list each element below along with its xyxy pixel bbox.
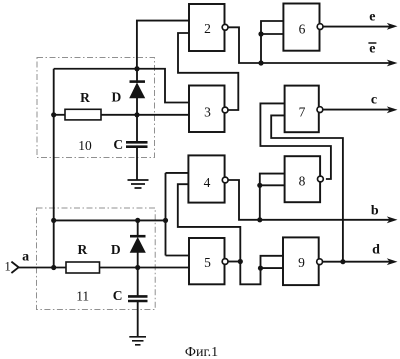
svg-text:d: d	[372, 242, 380, 257]
svg-text:7: 7	[299, 105, 306, 120]
svg-text:8: 8	[299, 174, 306, 189]
svg-text:C: C	[113, 137, 123, 152]
svg-text:b: b	[371, 204, 379, 219]
svg-text:10: 10	[78, 138, 92, 153]
svg-text:D: D	[111, 242, 121, 257]
svg-text:R: R	[78, 242, 88, 257]
svg-text:3: 3	[204, 105, 211, 120]
svg-text:D: D	[112, 90, 122, 105]
svg-text:2: 2	[204, 21, 211, 36]
svg-text:Фиг.1: Фиг.1	[185, 345, 218, 359]
svg-text:6: 6	[299, 22, 306, 37]
svg-text:R: R	[80, 90, 90, 105]
svg-text:e: e	[369, 10, 375, 25]
svg-text:a: a	[22, 250, 29, 265]
svg-text:1: 1	[5, 259, 11, 273]
svg-text:9: 9	[298, 255, 305, 270]
svg-text:4: 4	[204, 175, 211, 190]
svg-text:C: C	[113, 288, 123, 303]
svg-text:5: 5	[204, 255, 211, 270]
svg-text:c: c	[371, 92, 377, 107]
svg-text:e: e	[369, 42, 375, 57]
svg-text:11: 11	[76, 289, 89, 304]
